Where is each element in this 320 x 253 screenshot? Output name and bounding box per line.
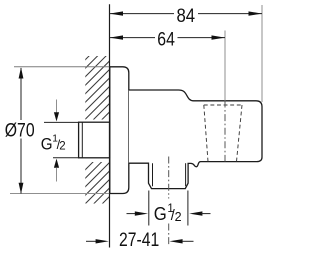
- svg-text:G: G: [154, 203, 167, 224]
- outlet fitting thread lines: [152, 163, 154, 186]
- G1/2 lower right arrow: [189, 211, 202, 215]
- hidden holder cone left dashed: [204, 105, 208, 162]
- G1/2 upper down arrow: [56, 100, 58, 113]
- wall hatching lower: [83, 143, 112, 223]
- hidden holder cone right dashed: [237, 105, 243, 162]
- G1/2 lower left extension line: [148, 191, 150, 226]
- svg-text:64: 64: [157, 30, 175, 51]
- G1/2 lower right extension line: [187, 191, 189, 226]
- outlet centerline: [168, 157, 170, 199]
- inlet thread top extension line: [44, 121, 79, 123]
- dimension line 64: [110, 37, 156, 39]
- inlet nipple thread line: [81, 122, 83, 158]
- dimension line 84: [110, 13, 175, 15]
- svg-text:2: 2: [59, 140, 65, 152]
- svg-text:27-41: 27-41: [119, 230, 159, 251]
- inlet nipple G1/2: [79, 122, 110, 158]
- escutcheon bottom extension line: [10, 193, 110, 195]
- body holder arm outline: [129, 90, 262, 189]
- escutcheon flange plate: [110, 67, 129, 194]
- dimension line 27-41: [86, 240, 97, 242]
- G1/2 upper up arrow: [54, 159, 59, 168]
- cone centerline extension (64 dim): [224, 31, 226, 101]
- svg-text:2: 2: [175, 210, 182, 224]
- right end extension line (84 dim): [261, 5, 263, 102]
- G1/2 lower left arrow: [127, 213, 137, 215]
- hidden holder cone top dashed: [204, 104, 242, 106]
- svg-text:Ø70: Ø70: [5, 121, 35, 142]
- diameter 70 dimension line: [20, 68, 22, 120]
- svg-text:G: G: [41, 134, 53, 153]
- wall hatching upper: [83, 33, 112, 147]
- G1/2 lower label: [154, 203, 182, 224]
- wall surface line / extension line: [109, 4, 111, 247]
- escutcheon top extension line: [14, 66, 110, 68]
- cone centerline dash-dot: [224, 101, 226, 162]
- svg-text:84: 84: [177, 6, 196, 27]
- G1/2 upper label: [41, 133, 66, 153]
- inlet thread bottom extension line: [53, 157, 79, 159]
